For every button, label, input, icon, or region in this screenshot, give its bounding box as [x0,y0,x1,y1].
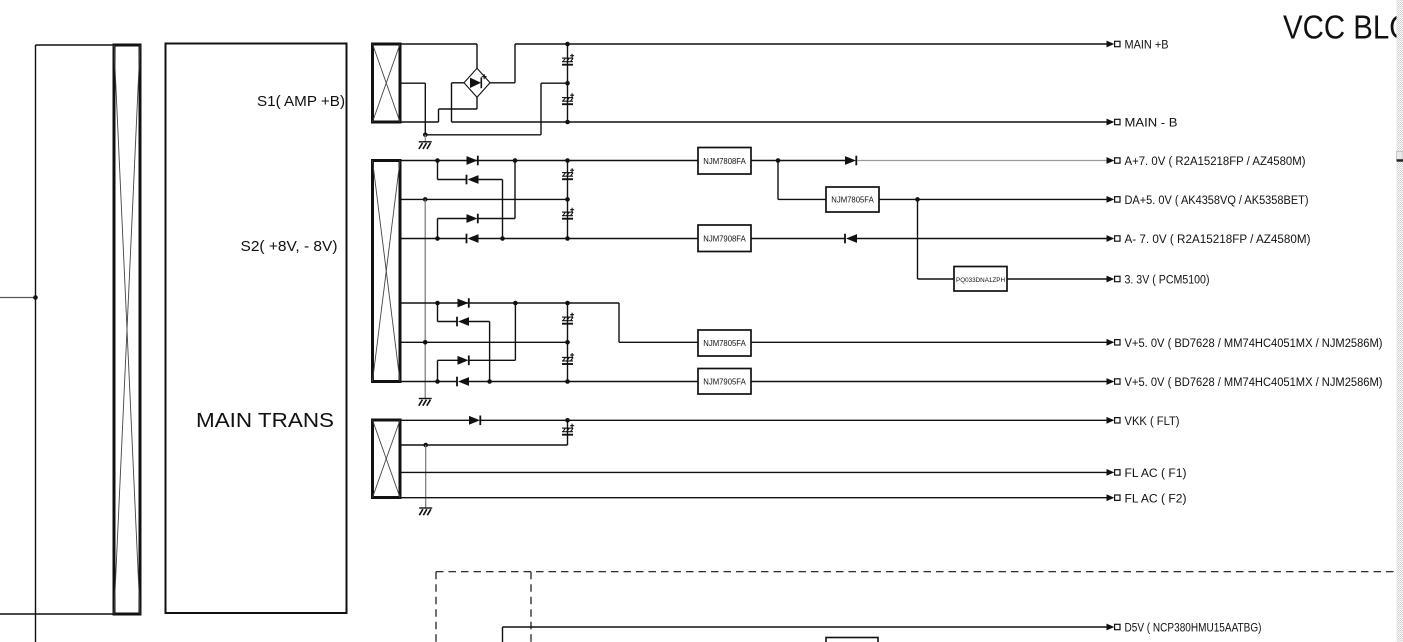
diode D906 [845,156,856,166]
svg-text:FL AC ( F1): FL AC ( F1) [1125,466,1187,480]
svg-text:3. 3V ( PCM5100): 3. 3V ( PCM5100) [1125,273,1210,287]
wire 3.3V rail [1007,278,1108,280]
node center tap ground junction [423,197,428,202]
node 3.3V branch junction [915,197,920,202]
wire VKK cap column [567,420,569,445]
port V+5.0V first [1107,336,1383,350]
diode D911 [457,377,469,387]
wire D910 cathode vertical [514,303,516,360]
wire D904 cathode horizontal [478,218,515,220]
scrollbar thumb [1397,152,1403,162]
wire FL AC F2 rail [400,497,1108,499]
wire DA+5.0V rail [879,198,1108,200]
wire cap column C903 [567,161,569,200]
node C904 bottom junction [565,236,570,241]
wire VKK rail left [400,419,469,421]
node C901 C902 midpoint [565,81,570,86]
wire S1 bottom jog vertical [438,109,440,122]
wire S1 center tap [400,82,425,84]
node S3 ground junction [423,443,428,448]
wire cap column C901 [567,44,569,83]
wire S1 ground stub [424,135,426,142]
wire MAIN +B rail [515,43,1108,45]
wire -8 regulated rail [751,238,845,240]
capacitor C902 [562,93,574,104]
node C905 top junction [565,301,570,306]
wire cap column C902 [567,83,569,122]
wire S2 tap6 rail left [400,381,457,383]
wire V+ jog vertical [618,303,620,342]
wire bridge top vertical [476,44,478,68]
ground S1 center tap [419,142,432,149]
wire D5V source vertical [502,627,504,642]
diode D905 [467,234,479,244]
wire V- rail to regulator [469,381,698,383]
wire D909 branch horizontal [438,321,458,323]
wire S3 mid tap rail [400,444,568,446]
wire V+5.0V rail 1 [751,341,1108,343]
wire center tap ground vertical [424,199,426,398]
ground S2 center tap [419,399,432,406]
svg-text:S2( +8V, - 8V): S2( +8V, - 8V) [241,238,338,255]
component box (partial, bottom) [826,638,878,642]
wire D909 anode vertical [489,322,491,382]
wire MAIN -B rail [452,121,1109,123]
capacitor C905 [562,313,574,324]
diode D907 [845,234,857,244]
port MAIN -B [1107,116,1178,130]
wire D904 branch horizontal [438,218,467,220]
node tap3 branch junction [435,236,440,241]
wire S2 tap3 rail left [400,238,467,240]
svg-text:NJM7905FA: NJM7905FA [703,376,746,386]
scrollbar dithered strip [1397,0,1403,642]
dashed block divider [530,572,532,642]
port V+5.0V second [1107,375,1383,389]
transformer block MAIN TRANS outline [166,44,347,614]
wire S1 bottom tap [400,121,439,123]
svg-text:FL AC ( F2): FL AC ( F2) [1125,491,1187,505]
node tap4 branch junction [435,301,440,306]
wire D5V rail [503,626,1109,628]
svg-text:V+5. 0V ( BD7628 / MM74HC4051M: V+5. 0V ( BD7628 / MM74HC4051MX / NJM258… [1125,375,1383,389]
diode D902 [467,156,478,166]
dashed block top edge [436,571,1397,573]
wire D903 anode vertical [502,180,504,239]
wire 3.3V branch horizontal [918,278,955,280]
wire bridge - output vertical [451,83,453,122]
node C903 top junction [565,158,570,163]
svg-text:A+7. 0V ( R2A15218FP / AZ4580M: A+7. 0V ( R2A15218FP / AZ4580M) [1125,154,1306,168]
svg-text:NJM7808FA: NJM7808FA [703,156,746,166]
wire DA branch horizontal [778,198,826,200]
node tap6 branch junction [435,379,440,384]
wire cap column C904 [567,199,569,238]
wire S1 top tap to bridge [400,43,477,45]
node D910 cathode junction [513,301,518,306]
node C902 bottom junction [565,120,570,125]
wire bridge + output horizontal [490,82,515,84]
svg-text:NJM7908FA: NJM7908FA [703,233,746,243]
svg-text:A- 7. 0V ( R2A15218FP / AZ4580: A- 7. 0V ( R2A15218FP / AZ4580M) [1125,232,1311,246]
wire -8 rail to regulator [479,238,699,240]
node tap1 branch junction [435,158,440,163]
node primary stub junction [33,295,38,300]
svg-text:NJM7805FA: NJM7805FA [703,338,746,348]
port MAIN +B [1107,38,1169,52]
wire cap mid to left [541,82,568,84]
port A+7.0V [1107,154,1306,168]
diode D909 [457,317,469,327]
node VKK cap junction [565,418,570,423]
dashed block left edge [435,572,437,642]
wire S1 center tap vertical [424,83,426,135]
node D903 anode to -8 rail [500,236,505,241]
svg-text:V+5. 0V ( BD7628 / MM74HC4051M: V+5. 0V ( BD7628 / MM74HC4051MX / NJM258… [1125,336,1383,350]
node C905 C906 midpoint [565,340,570,345]
bridge rectifier D901 [464,68,490,97]
node C901 top junction [565,42,570,47]
svg-text:MAIN TRANS: MAIN TRANS [196,409,334,432]
transformer S1 secondary winding [373,44,401,122]
wire primary left stub [0,297,36,299]
wire primary bottom [0,613,114,615]
wire DA branch vertical [777,161,779,200]
port FL AC F1 [1107,466,1187,480]
wire D903 branch vertical [437,161,439,180]
wire cap column C905 [567,303,569,342]
wire cap column C906 [567,342,569,381]
transformer S3 secondary winding [373,420,401,498]
diode D908 [458,298,469,308]
svg-text:NJM7805FA: NJM7805FA [831,195,874,205]
node D904 cathode junction [513,158,518,163]
wire S3 ground vertical [425,445,427,508]
diode D912 [469,416,480,426]
wire S2 tap4 rail [400,302,619,304]
capacitor C906 [562,353,574,364]
node S1 ground junction [423,133,428,138]
wire D903 branch horizontal [438,179,467,181]
port A-7.0V [1107,232,1311,246]
wire V+5.0V rail 2 [751,381,1108,383]
svg-text:MAIN +B: MAIN +B [1125,38,1169,52]
regulator IC903 PQ033DNA1ZPH [954,267,1007,292]
port VKK [1107,414,1180,428]
svg-text:MAIN - B: MAIN - B [1125,116,1178,130]
wire bridge AC2 vertical [476,97,478,109]
capacitor C903 [562,168,574,179]
wire V+ jog horizontal [619,341,698,343]
wire D910 branch horizontal [438,359,458,361]
port DA+5.0V [1107,193,1309,207]
diode D910 [458,356,469,366]
node C903 C904 midpoint [565,197,570,202]
svg-text:PQ033DNA1ZPH: PQ033DNA1ZPH [956,277,1005,284]
regulator IC904 NJM7908FA [698,225,751,252]
wire FL AC F1 rail [400,471,1108,473]
capacitor C904 [562,208,574,219]
regulator IC902 NJM7805FA [826,187,879,212]
wire 3.3V branch vertical [917,199,919,279]
wire D910 cathode horizontal [469,359,516,361]
wire lower center tap rail [400,341,568,343]
svg-text:VCC BLOCK: VCC BLOCK [1283,9,1403,46]
wire primary top [36,44,115,46]
port 3.3V [1107,273,1210,287]
node C906 bottom junction [565,379,570,384]
wire D903 anode horizontal [479,179,503,181]
wire primary input vertical [35,45,37,642]
diode D904 [467,214,478,224]
diode D903 [467,175,479,185]
port D5V [1107,621,1262,635]
svg-text:S1( AMP +B): S1( AMP +B) [257,93,345,110]
regulator IC905 NJM7805FA [698,330,751,356]
wire D909 branch vertical [437,303,439,322]
wire S2 tap1 rail [400,160,698,162]
wire S2 center tap rail [400,198,568,200]
wire A+7.0V rail (light) [857,160,1108,162]
wire D904 branch vertical [437,219,439,239]
svg-text:VKK ( FLT): VKK ( FLT) [1125,414,1180,428]
wire bridge - output horizontal [452,82,465,84]
node A+7 branch junction [776,158,781,163]
node lower center tap junction [423,340,428,345]
regulator IC901 NJM7808FA [698,148,751,175]
capacitor C907 [562,424,574,435]
wire bridge + output vertical [514,44,516,83]
svg-text:D5V ( NCP380HMU15AATBG): D5V ( NCP380HMU15AATBG) [1125,621,1262,635]
capacitor C901 [562,54,574,65]
wire S1 bottom jog horizontal [439,108,478,110]
transformer T1 primary winding [114,45,140,614]
wire D910 branch vertical [437,360,439,381]
wire +8 regulated rail [751,160,845,162]
wire cap mid to ground node [425,134,541,136]
wire A-7.0V rail [857,238,1108,240]
port FL AC F2 [1107,491,1187,505]
wire D904 cathode vertical [514,161,516,219]
ground S3 tap [419,508,432,515]
regulator IC906 NJM7905FA [698,369,751,395]
wire D909 anode horizontal [469,321,490,323]
wire cap mid vertical down [540,83,542,135]
node D909 anode junction [487,379,492,384]
wire VKK rail [481,419,1108,421]
transformer S2 secondary winding [373,161,401,382]
svg-text:DA+5. 0V ( AK4358VQ / AK5358BE: DA+5. 0V ( AK4358VQ / AK5358BET) [1125,193,1309,207]
